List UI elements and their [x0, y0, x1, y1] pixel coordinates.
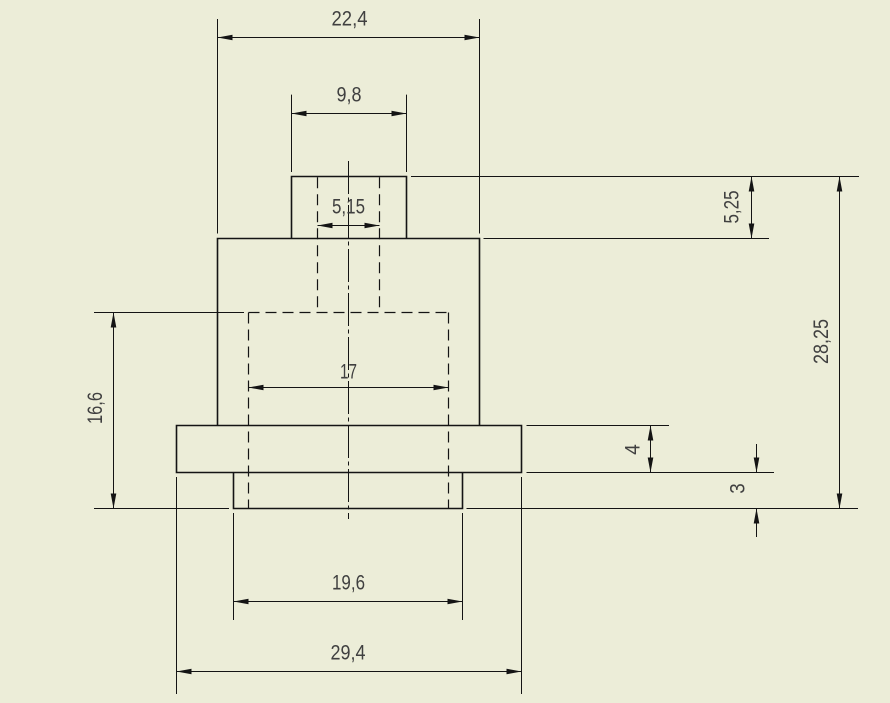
dimension 16,6 extension top — [94, 312, 244, 314]
dimension 16,6 extension bottom — [94, 508, 229, 510]
hidden line: cavity top — [249, 312, 449, 314]
dimension 5,25 extension top — [411, 176, 859, 178]
dimension 9,8 extension left — [291, 95, 293, 172]
dimension 29,4 extension right — [521, 477, 523, 694]
part outline: bottom step — [234, 473, 463, 509]
dimension 3 leader top — [756, 444, 758, 473]
part outline: top boss — [292, 177, 407, 239]
dimension 22,4 extension left — [217, 19, 219, 234]
svg-text:16,6: 16,6 — [84, 392, 107, 424]
dimension 3 leader bottom — [756, 509, 758, 538]
svg-text:3: 3 — [727, 483, 750, 494]
svg-text:19,6: 19,6 — [332, 572, 365, 595]
dimension 9,8 line — [292, 113, 407, 115]
hidden line: hole right — [379, 177, 381, 312]
dimension 4 extension bottom — [527, 472, 775, 474]
svg-text:5,25: 5,25 — [721, 191, 744, 224]
dimension 29,4 extension left — [176, 477, 178, 694]
dimension 28,25 line — [839, 177, 841, 509]
dimension 29,4 line — [177, 671, 522, 673]
dimension 4 extension top — [527, 425, 670, 427]
dimension 4 line — [650, 426, 652, 473]
dimension 5,15 line — [318, 225, 380, 227]
dimension 22,4 line — [218, 37, 480, 39]
dimension 22,4 extension right — [479, 19, 481, 234]
dimension 5,25 line — [751, 177, 753, 239]
svg-text:28,25: 28,25 — [810, 319, 833, 364]
dimension 16,6 line — [113, 313, 115, 509]
hidden line: cavity right — [448, 313, 450, 509]
dimension 28,25 extension bottom — [467, 508, 859, 510]
svg-text:17: 17 — [340, 361, 357, 384]
dimension 9,8 extension right — [406, 95, 408, 172]
dimension 17 line — [249, 387, 449, 389]
hidden line: hole left — [317, 177, 319, 312]
svg-text:22,4: 22,4 — [332, 8, 368, 31]
svg-text:5,15: 5,15 — [332, 196, 365, 219]
dimension 19,6 extension left — [233, 513, 235, 620]
svg-text:4: 4 — [622, 444, 645, 455]
dimension 19,6 extension right — [462, 513, 464, 620]
hidden line: cavity left — [248, 313, 250, 509]
part outline: middle body — [218, 239, 480, 426]
part outline: flange — [177, 426, 522, 473]
centerline — [348, 161, 350, 519]
svg-text:29,4: 29,4 — [331, 642, 366, 665]
dimension 5,25 extension bottom — [484, 238, 770, 240]
svg-text:9,8: 9,8 — [337, 84, 362, 107]
dimension 19,6 line — [234, 601, 463, 603]
